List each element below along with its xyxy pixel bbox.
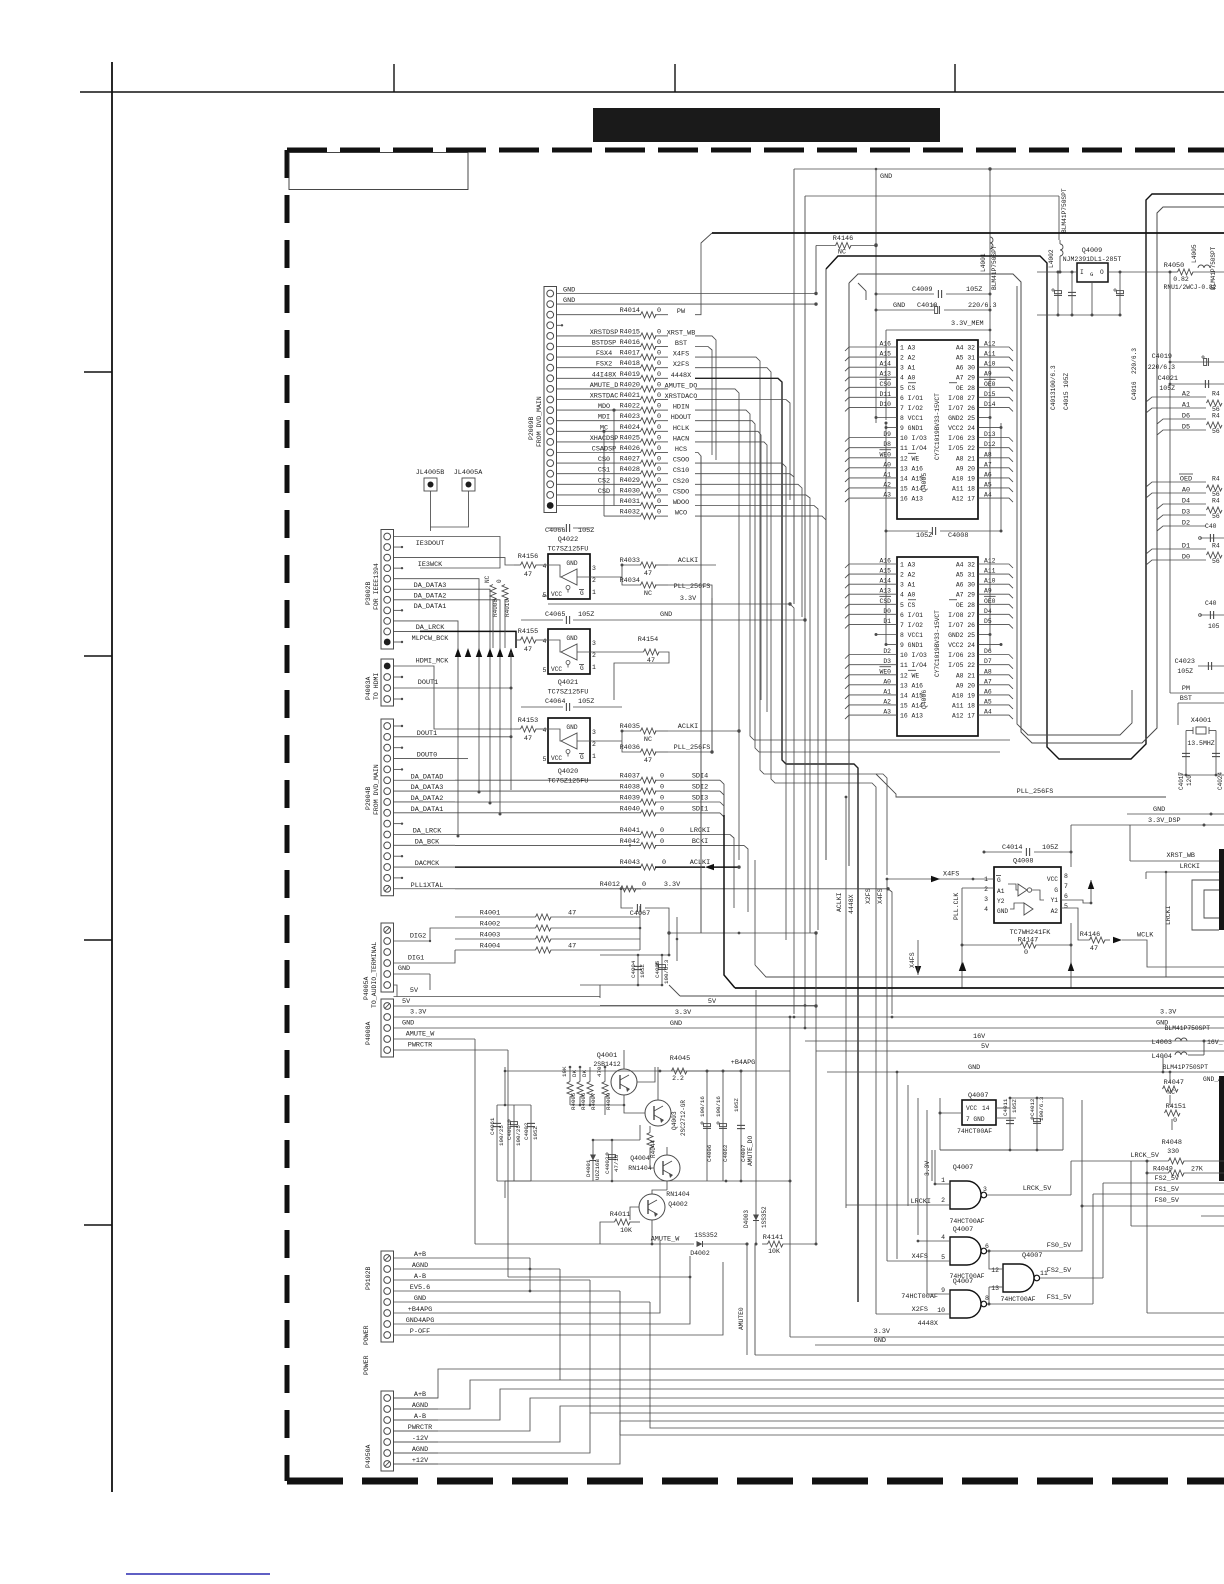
svg-text:R4004: R4004 — [480, 943, 500, 951]
svg-text:R4030: R4030 — [620, 487, 640, 495]
svg-text:C4015 105Z: C4015 105Z — [1063, 373, 1070, 410]
svg-text:Q4020: Q4020 — [558, 768, 578, 776]
transistor Q4001 2SB1412 — [593, 1052, 637, 1095]
bus ring outer — [826, 194, 1224, 759]
svg-text:0: 0 — [660, 827, 664, 835]
transistor Q4004 RN1404 — [628, 1147, 680, 1190]
capacitor C4002 105Z — [523, 1105, 539, 1181]
resistor R4153 47 — [514, 717, 548, 743]
svg-text:R4146: R4146 — [1080, 931, 1100, 939]
svg-text:A6: A6 — [984, 471, 992, 478]
wire DA_LRCK run — [420, 621, 460, 838]
svg-text:A4 32: A4 32 — [956, 345, 975, 352]
wire bottom extra 3 — [559, 1296, 561, 1380]
resistor R4028 0 — [620, 466, 690, 477]
svg-text:8 VCC1: 8 VCC1 — [900, 632, 923, 639]
svg-text:POWER: POWER — [363, 1325, 370, 1345]
resistor R4156 47 — [514, 553, 548, 579]
wire AMUTE_W P4008A — [394, 1031, 476, 1245]
wire DA_BCK P2004B — [394, 838, 456, 846]
svg-text:PW: PW — [677, 308, 686, 316]
wire q cluster — [570, 1050, 655, 1106]
svg-text:0: 0 — [1173, 1117, 1177, 1124]
svg-text:DOUT1: DOUT1 — [418, 679, 438, 687]
wire PLL.CLK — [953, 888, 994, 945]
svg-text:ACLKI: ACLKI — [678, 557, 698, 565]
Q4006 pin wires — [845, 558, 1013, 720]
gate U Q4007a — [846, 1150, 1071, 1225]
svg-text:47: 47 — [568, 943, 576, 951]
wire DIG2 — [394, 933, 432, 943]
svg-text:10K: 10K — [561, 1066, 568, 1077]
svg-text:100/25: 100/25 — [498, 1125, 505, 1146]
svg-text:A2: A2 — [883, 698, 891, 705]
svg-text:3 A1: 3 A1 — [900, 582, 916, 589]
svg-text:27K: 27K — [1191, 1166, 1203, 1173]
svg-text:A10 19: A10 19 — [952, 692, 975, 699]
svg-text:BST: BST — [675, 340, 687, 348]
svg-text:0: 0 — [657, 509, 661, 517]
svg-text:GND: GND — [880, 173, 892, 181]
svg-text:4: 4 — [543, 727, 547, 734]
svg-text:D6: D6 — [984, 648, 992, 655]
node nc P2004B pin10 — [394, 822, 404, 824]
svg-text:FROM DVD_MAIN: FROM DVD_MAIN — [536, 396, 543, 447]
svg-text:A9 20: A9 20 — [956, 465, 975, 472]
bus vert 897 — [896, 1071, 899, 1259]
capacitor C4018 right — [1199, 523, 1224, 542]
zener D4001 UDZ16B — [585, 1139, 601, 1181]
wire CS10 net — [695, 474, 794, 600]
wire crystal gnd rail — [1178, 774, 1224, 777]
svg-text:RN1404: RN1404 — [666, 1191, 690, 1198]
svg-text:D4003: D4003 — [743, 1210, 750, 1228]
svg-text:1: 1 — [592, 753, 596, 760]
resistor R4003 — [455, 932, 640, 943]
svg-text:R4017: R4017 — [620, 350, 640, 358]
svg-text:R4014: R4014 — [620, 307, 640, 315]
node nc P4003A pin2 — [394, 676, 404, 678]
wire DA_DATA3 P2004B — [394, 784, 456, 792]
resistor R4036 47 — [620, 598, 714, 765]
svg-text:GND: GND — [402, 1020, 414, 1028]
svg-text:3.3V: 3.3V — [680, 595, 697, 603]
wire DA_BCK run — [455, 844, 641, 846]
svg-text:6: 6 — [1064, 893, 1068, 900]
wire Q4022 pin5 — [542, 595, 548, 597]
svg-text:R4036: R4036 — [620, 744, 640, 752]
wire DIG1 — [394, 955, 429, 964]
svg-text:Q4004: Q4004 — [630, 1155, 650, 1162]
bus ring right small — [1017, 286, 1132, 735]
capacitor C4012 100/6.3 — [940, 1096, 1063, 1151]
svg-text:FS2_5V: FS2_5V — [1047, 1267, 1072, 1275]
svg-text:1: 1 — [941, 1177, 945, 1184]
resistor R4146 NC top — [816, 235, 878, 294]
capacitor C4021 105Z — [1158, 375, 1224, 392]
svg-text:47: 47 — [524, 646, 532, 654]
resistor R4154 47 — [577, 636, 669, 700]
connector P3002B — [365, 530, 394, 650]
svg-text:Y2: Y2 — [997, 898, 1005, 905]
resistor R4035 NC — [620, 723, 741, 744]
svg-text:8 VCC1: 8 VCC1 — [900, 415, 923, 422]
svg-text:FS1_5V: FS1_5V — [1155, 1186, 1180, 1194]
wire dig runs — [428, 906, 678, 990]
svg-text:D8: D8 — [883, 441, 891, 448]
svg-text:R4019: R4019 — [620, 371, 640, 379]
inductor L4003 — [1152, 1025, 1223, 1047]
wire box bottom rail — [755, 1244, 1224, 1355]
svg-text:9: 9 — [941, 1287, 945, 1294]
svg-text:Q4003: Q4003 — [671, 1111, 678, 1130]
wire mid join — [667, 917, 817, 935]
svg-text:12: 12 — [991, 1267, 999, 1274]
Q4005 pin wires — [845, 341, 1013, 503]
svg-text:6: 6 — [985, 1243, 989, 1250]
svg-text:L4005: L4005 — [1191, 244, 1198, 263]
resistor R4001 — [455, 910, 640, 921]
svg-text:11 I/O4: 11 I/O4 — [900, 445, 927, 452]
svg-text:1SS352: 1SS352 — [694, 1232, 718, 1239]
svg-text:+B4APG: +B4APG — [731, 1059, 755, 1067]
resistor R4017 0 — [620, 350, 690, 361]
svg-text:GND: GND — [968, 1064, 980, 1072]
svg-text:X4FS: X4FS — [877, 888, 884, 904]
svg-text:P4950A: P4950A — [365, 1444, 372, 1468]
resistor R4047 NC — [1163, 1071, 1223, 1105]
svg-text:R4023: R4023 — [620, 413, 640, 421]
svg-text:56: 56 — [1212, 558, 1220, 565]
svg-text:13.5MHZ: 13.5MHZ — [1187, 740, 1214, 747]
wire PLL1XTAL P2004B — [394, 882, 456, 890]
svg-text:0: 0 — [657, 403, 661, 411]
resistor R4025 0 — [620, 434, 690, 445]
bus ring 5 — [858, 283, 866, 300]
wire CS20 net — [695, 484, 802, 617]
svg-text:R4021: R4021 — [620, 392, 640, 400]
wire pin P2009B — [557, 505, 642, 507]
svg-text:VCC: VCC — [551, 666, 562, 673]
svg-text:5: 5 — [1064, 903, 1068, 910]
svg-text:C4024: C4024 — [1217, 772, 1224, 790]
inductor L4004 — [1152, 1041, 1209, 1073]
svg-text:I: I — [1080, 269, 1084, 276]
frame tick top 1 — [393, 64, 395, 92]
wire HCS net — [695, 453, 701, 934]
svg-text:R4153: R4153 — [518, 717, 538, 725]
svg-text:CY7C1019BV33-15VCT: CY7C1019BV33-15VCT — [934, 393, 941, 460]
svg-text:A15: A15 — [879, 568, 891, 575]
svg-text:IE3DOUT: IE3DOUT — [416, 540, 445, 548]
wire 3.3V_DSP — [1071, 817, 1224, 827]
svg-text:2 A2: 2 A2 — [900, 572, 916, 579]
resistor R4044 — [647, 1126, 657, 1160]
transistor Q4003 2SC2712-GR — [624, 1067, 687, 1136]
svg-text:A11 18: A11 18 — [952, 485, 975, 492]
svg-text:100/16: 100/16 — [715, 1096, 722, 1117]
svg-text:0: 0 — [660, 838, 664, 846]
wire DA_DATA1 run2 — [455, 812, 641, 814]
resistor R4010 0 — [496, 579, 511, 648]
wire A-B 9102 run — [448, 1279, 590, 1281]
svg-text:47: 47 — [644, 570, 652, 578]
node nc P2004B pin15 — [394, 877, 404, 879]
svg-text:WCLK: WCLK — [1137, 932, 1154, 940]
svg-text:5 CS: 5 CS — [900, 602, 916, 609]
svg-text:HCLK: HCLK — [673, 425, 690, 433]
svg-text:47: 47 — [647, 657, 655, 665]
wire A+B 9102 run — [448, 1257, 530, 1259]
wire right v3 — [1169, 272, 1171, 560]
svg-text:A13: A13 — [879, 371, 891, 378]
svg-text:P4005A: P4005A — [363, 976, 370, 1000]
svg-text:PLL.CLK: PLL.CLK — [953, 893, 960, 920]
resistor R4034 NC — [620, 577, 712, 598]
svg-text:SDI3: SDI3 — [692, 795, 708, 803]
svg-text:R4043: R4043 — [620, 859, 640, 867]
resistor R4019 0 — [620, 371, 692, 382]
wire reg out — [1108, 271, 1170, 273]
svg-text:0: 0 — [657, 477, 661, 485]
buffer U Q4022 — [543, 536, 597, 599]
svg-text:6 I/O1: 6 I/O1 — [900, 612, 923, 619]
wire PLL1XTAL run — [455, 888, 641, 890]
svg-text:GND: GND — [566, 560, 577, 567]
svg-text:R4049: R4049 — [1153, 1166, 1173, 1173]
svg-text:DA_DATA1: DA_DATA1 — [414, 603, 447, 611]
svg-text:X4001: X4001 — [1191, 717, 1211, 725]
svg-text:12 WE: 12 WE — [900, 672, 919, 679]
svg-text:BLM41P750SPT: BLM41P750SPT — [1210, 246, 1217, 290]
svg-text:A3: A3 — [883, 709, 891, 716]
wire DA_LRCK P3002B — [394, 621, 446, 632]
wire MLPCW_BCK P3002B — [394, 631, 450, 642]
wire X4FS into Q4008 — [887, 871, 994, 883]
wire pin P2009B — [557, 314, 642, 316]
IC U Q4006 CY7C1019BV33 — [897, 557, 978, 736]
svg-text:Q4002: Q4002 — [668, 1201, 688, 1208]
svg-text:AMUTE0: AMUTE0 — [738, 1307, 745, 1330]
wire 5V long — [816, 1043, 1224, 1051]
svg-text:C4012: C4012 — [1029, 1098, 1036, 1116]
svg-text:4: 4 — [984, 906, 988, 913]
wire pwrctr joins — [508, 1258, 691, 1308]
crystal X4001 13.5MHZ — [1186, 717, 1216, 747]
capacitor C4024 — [1212, 731, 1224, 791]
node pin4 P2009B — [557, 324, 564, 326]
svg-text:A14: A14 — [879, 578, 891, 585]
svg-text:3: 3 — [984, 896, 988, 903]
resistor R4016 0 — [620, 339, 688, 350]
capacitor C4017 120 — [1178, 731, 1193, 791]
resistor R4033 47 — [620, 557, 716, 578]
svg-text:A8: A8 — [984, 668, 992, 675]
wire XRST_WB net — [695, 336, 716, 460]
svg-text:I/O5 22: I/O5 22 — [948, 662, 975, 669]
svg-text:74HCT00AF: 74HCT00AF — [957, 1128, 992, 1135]
wire 3.3V_MEM — [885, 320, 992, 425]
svg-text:R4022: R4022 — [620, 403, 640, 411]
svg-text:XRST_WB: XRST_WB — [667, 329, 696, 337]
vert 858 4448x — [848, 894, 855, 914]
svg-text:R4037: R4037 — [620, 773, 640, 781]
svg-text:0: 0 — [660, 773, 664, 781]
wire IE3WCK P3002B — [394, 558, 444, 569]
svg-text:5: 5 — [543, 592, 547, 599]
capacitor C4008 105Z — [885, 527, 1003, 540]
jumper JL4005A — [431, 469, 484, 527]
svg-text:A7: A7 — [984, 461, 992, 468]
wire DA_DATAD run — [455, 779, 641, 781]
svg-text:3: 3 — [592, 640, 596, 647]
svg-text:A4 32: A4 32 — [956, 562, 975, 569]
svg-text:GND_A: GND_A — [1203, 1076, 1222, 1083]
svg-text:C4021: C4021 — [1158, 375, 1178, 383]
svg-text:C40: C40 — [1205, 523, 1217, 530]
svg-text:P2009B: P2009B — [528, 416, 535, 440]
svg-text:74HCT00AF: 74HCT00AF — [1000, 1296, 1035, 1303]
svg-text:X4FS: X4FS — [912, 1253, 928, 1261]
wire WCO net — [695, 516, 826, 860]
svg-text:C4065: C4065 — [545, 611, 565, 619]
wire IE3WCK run — [420, 558, 514, 565]
wires P4950A staircase — [394, 1369, 1224, 1464]
wire 5V P4005A — [394, 985, 601, 997]
svg-text:16V_: 16V_ — [1207, 1039, 1223, 1046]
wire GND bottom — [815, 1337, 1224, 1356]
capacitor C4065 105Z — [521, 611, 807, 1021]
svg-text:SDI4: SDI4 — [692, 773, 708, 781]
svg-text:PLL_256FS: PLL_256FS — [1017, 788, 1054, 796]
wire FSX4 P2009B — [557, 350, 642, 358]
svg-text:47: 47 — [524, 571, 532, 579]
wire 44I48X P2009B — [557, 371, 642, 379]
svg-text:105Z: 105Z — [966, 286, 982, 294]
wire 16V — [805, 1033, 1224, 1041]
svg-text:R4: R4 — [1212, 476, 1220, 483]
svg-text:FOR IEEE1394: FOR IEEE1394 — [373, 563, 380, 610]
wire rail 990 — [988, 167, 993, 650]
wire AGND 9102 run — [448, 1268, 560, 1271]
svg-text:G: G — [1054, 887, 1058, 894]
wire GND 9102 run — [448, 1301, 650, 1303]
svg-text:105Z: 105Z — [733, 1098, 740, 1112]
capacitor C4013 100/6.3 — [1050, 271, 1062, 411]
resistor R4041 0 — [620, 827, 734, 908]
resistor R4042 0 — [620, 838, 748, 912]
wire MDO P2009B — [557, 403, 642, 411]
svg-text:3.3V: 3.3V — [1160, 1009, 1177, 1017]
wire rail 1001 — [1000, 423, 1002, 531]
bus vert 908 — [907, 1085, 909, 1206]
wire WDOO net — [695, 506, 818, 931]
svg-text:D4: D4 — [984, 608, 992, 615]
svg-text:0.82: 0.82 — [1173, 276, 1189, 283]
resistor R4045 2.2 — [670, 1055, 790, 1082]
bus line 1005 — [600, 1004, 816, 1007]
svg-text:2 A2: 2 A2 — [900, 355, 916, 362]
svg-text:105Z: 105Z — [578, 611, 594, 619]
svg-text:O: O — [1100, 269, 1104, 276]
svg-text:330: 330 — [1167, 1148, 1179, 1155]
wire CS2 P2009B — [557, 477, 642, 485]
wire GND dsp — [1127, 806, 1224, 816]
wire FS1_5V right — [1093, 1186, 1224, 1194]
svg-text:R4033: R4033 — [620, 557, 640, 565]
svg-text:Q4007: Q4007 — [953, 1278, 973, 1286]
bus vert 712 — [711, 598, 713, 752]
svg-text:3: 3 — [983, 1186, 987, 1193]
svg-text:FS2_5V: FS2_5V — [1155, 1175, 1180, 1183]
svg-text:A3: A3 — [883, 492, 891, 499]
svg-text:OE 28: OE 28 — [956, 385, 975, 392]
svg-text:470: 470 — [596, 1066, 603, 1077]
svg-text:TC7SZ125FU: TC7SZ125FU — [548, 689, 589, 697]
svg-text:TC7SZ125FU: TC7SZ125FU — [548, 778, 589, 786]
svg-text:ACLKI: ACLKI — [836, 892, 843, 912]
svg-text:100/6.3: 100/6.3 — [1038, 1096, 1045, 1121]
wire HDIN net — [695, 410, 1010, 740]
wire bottom extra 1 — [650, 1302, 1224, 1428]
bus vert 724b — [724, 815, 735, 988]
bus ring 4 — [848, 283, 850, 866]
svg-text:0: 0 — [657, 392, 661, 400]
resistor R4022 0 — [620, 403, 690, 414]
resistor R4147 0 — [961, 937, 1073, 958]
frame tick top 2 — [674, 64, 676, 92]
svg-text:PWRCTR: PWRCTR — [408, 1042, 432, 1050]
svg-text:X4FS: X4FS — [943, 871, 959, 879]
wire heavy top — [712, 232, 1224, 234]
svg-text:9 GND1: 9 GND1 — [900, 642, 923, 649]
board border left (dashed) — [285, 150, 290, 1481]
title bar — [593, 108, 940, 142]
frame tick left 1 — [84, 371, 112, 373]
svg-text:AMUTE_DO: AMUTE_DO — [665, 382, 698, 390]
resistor R4038 0 — [620, 784, 724, 933]
resistor R4011 10K — [600, 1211, 640, 1244]
wire Y1 out — [1061, 880, 1094, 904]
svg-text:BLM41P750SPT: BLM41P750SPT — [1061, 188, 1068, 233]
resistor R4005 10K — [561, 1066, 577, 1110]
svg-text:G: G — [997, 877, 1001, 884]
svg-text:0: 0 — [662, 859, 666, 867]
wire BSTDSP P2009B — [557, 340, 642, 348]
svg-text:NC: NC — [644, 736, 652, 744]
black IC edge bar 1 — [1219, 849, 1224, 930]
svg-text:12 WE: 12 WE — [900, 455, 919, 462]
resistor R4039 0 — [620, 795, 724, 934]
svg-text:R4009: R4009 — [605, 1092, 612, 1110]
capacitor C4023 105Z — [1175, 658, 1224, 675]
resistor R4146 47 — [1061, 908, 1224, 967]
svg-text:16V: 16V — [973, 1033, 986, 1041]
svg-text:GND: GND — [893, 302, 905, 310]
vert 846 aclki — [836, 796, 847, 1208]
vert 3.3V label — [924, 1150, 932, 1181]
wire FS2_5V right — [1103, 1175, 1224, 1183]
svg-text:XRST_WB: XRST_WB — [1166, 852, 1195, 860]
svg-text:9 GND1: 9 GND1 — [900, 425, 923, 432]
capacitor C4009 105Z — [875, 286, 992, 298]
wire bottom extra 2 — [620, 1308, 1224, 1435]
board label box — [289, 153, 468, 190]
svg-text:GND: GND — [670, 1020, 682, 1028]
buffer U Q4020 — [543, 718, 597, 786]
resistor R4151 0 — [1165, 1103, 1187, 1130]
svg-text:R4028: R4028 — [620, 466, 640, 474]
